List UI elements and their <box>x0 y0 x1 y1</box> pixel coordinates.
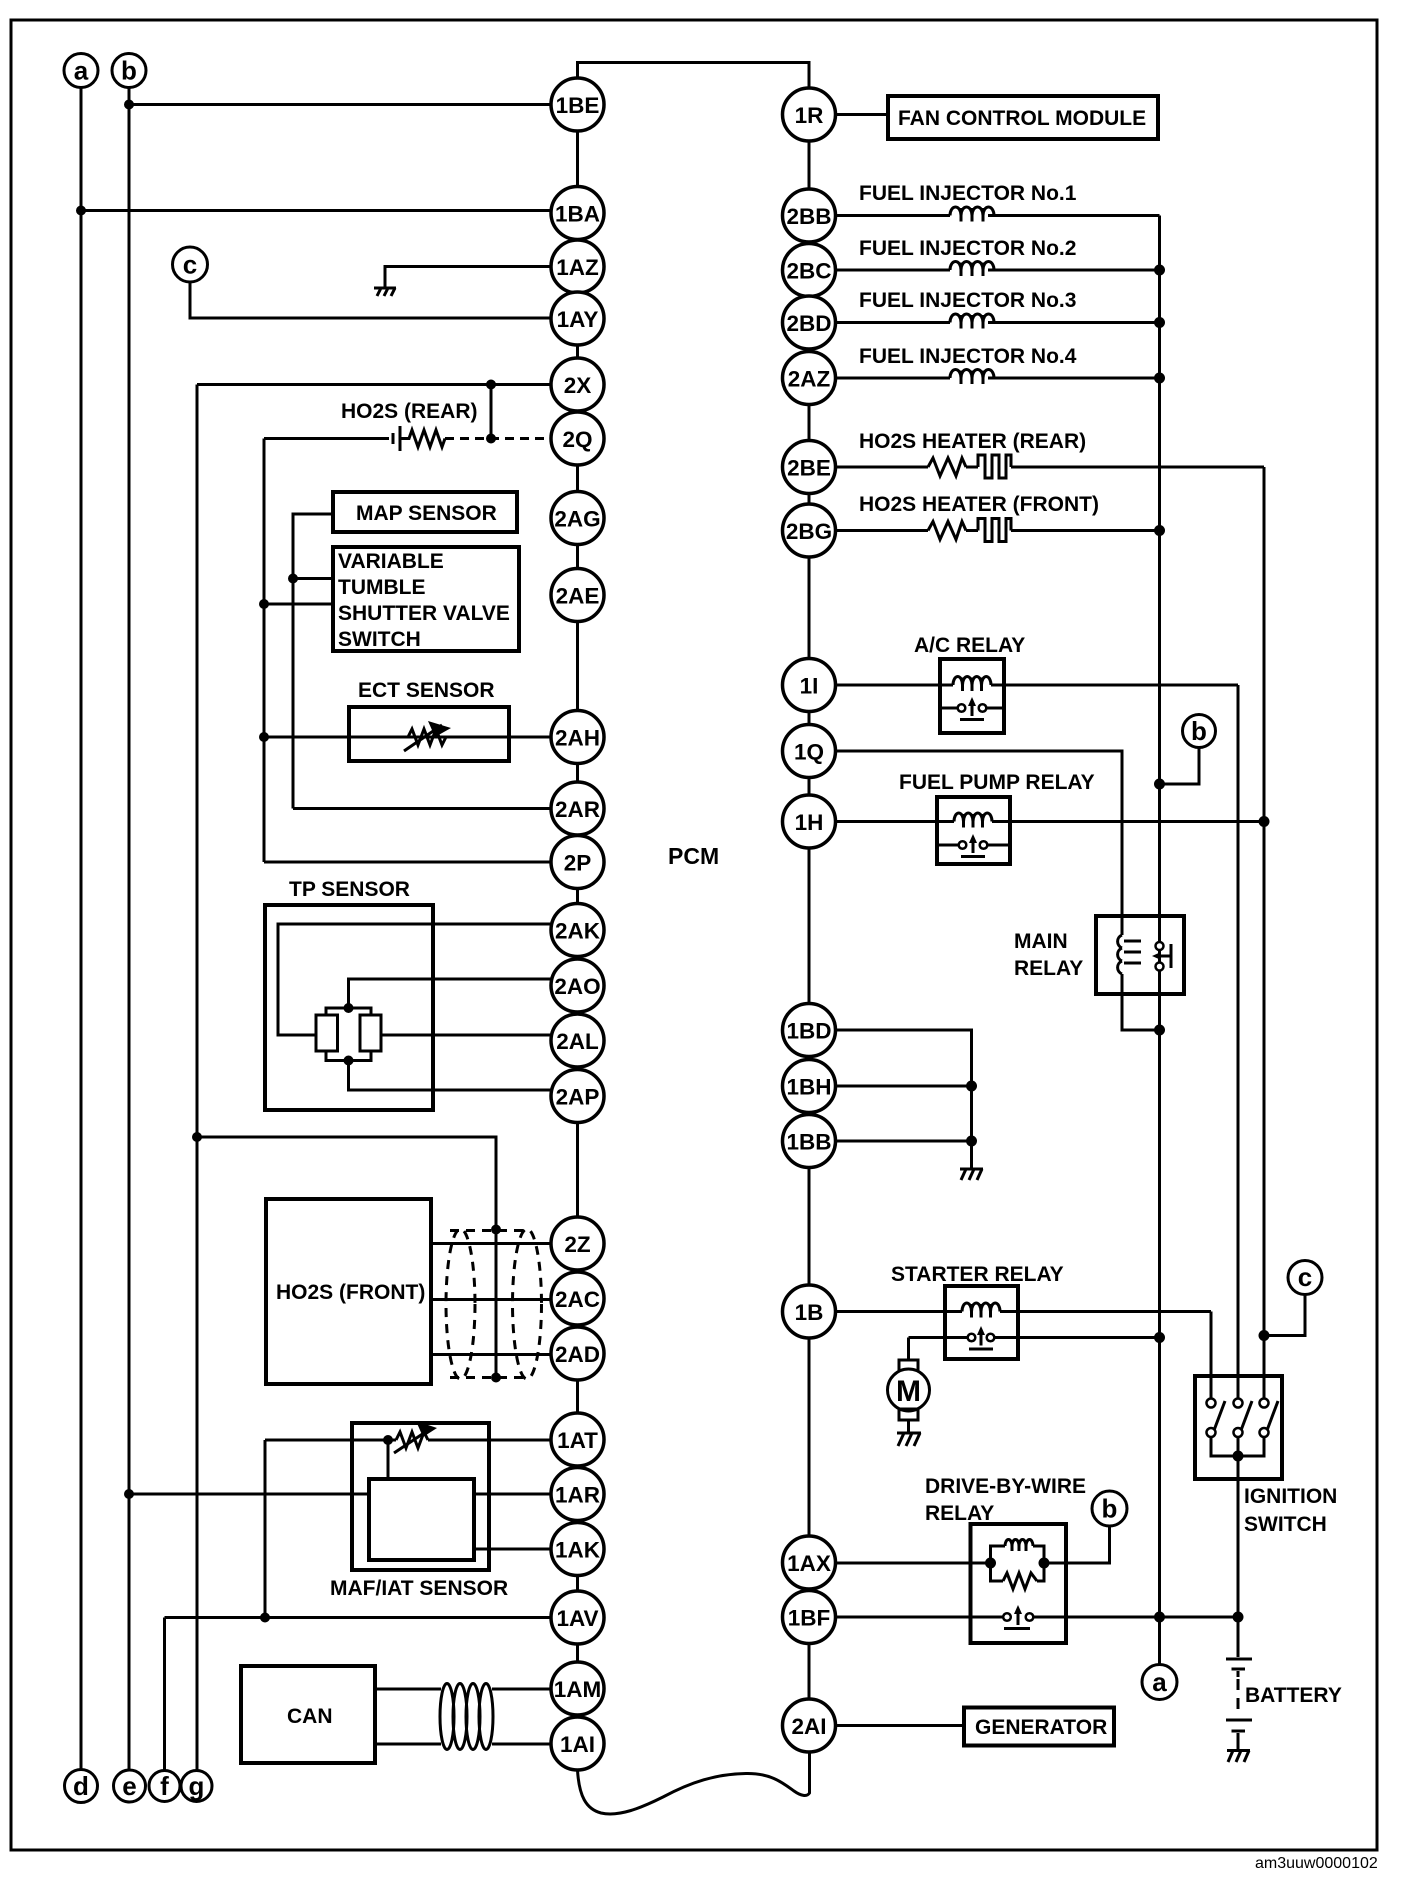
connector a bottom <box>1142 1665 1177 1700</box>
pin 1AT <box>551 1413 604 1466</box>
pin 2AI <box>783 1699 836 1752</box>
svg-text:FUEL INJECTOR No.2: FUEL INJECTOR No.2 <box>859 237 1076 260</box>
pin 1AR <box>551 1468 604 1521</box>
ECT thermistor symbol <box>408 729 446 745</box>
svg-text:1AK: 1AK <box>555 1538 601 1563</box>
wire 2BG heater front <box>836 529 929 532</box>
svg-text:1AY: 1AY <box>557 307 599 332</box>
svg-text:e: e <box>122 1771 136 1801</box>
ECT SENSOR box <box>349 707 509 761</box>
svg-text:b: b <box>121 56 137 86</box>
node dot b-1AR <box>124 1489 134 1499</box>
svg-text:2AP: 2AP <box>556 1085 600 1110</box>
svg-text:ECT SENSOR: ECT SENSOR <box>358 679 495 702</box>
wire 1AR <box>129 1493 369 1496</box>
HO2S (FRONT) box <box>266 1199 431 1384</box>
svg-text:MAIN: MAIN <box>1014 930 1068 953</box>
svg-text:2AC: 2AC <box>555 1287 600 1312</box>
shield dashed ellipse right <box>513 1229 542 1379</box>
node dot VT1 <box>288 574 298 584</box>
svg-text:1B: 1B <box>795 1300 824 1325</box>
pin 2BC <box>783 244 836 297</box>
LEFT-AREA-WIRES <box>76 88 810 1814</box>
MAF/IAT outer box <box>352 1423 489 1570</box>
pin 1AI <box>551 1717 604 1770</box>
pin 1AZ <box>551 240 604 293</box>
wire 1BF <box>836 1616 1004 1619</box>
wire c to x1264 <box>1264 1295 1305 1336</box>
svg-text:1AT: 1AT <box>557 1428 598 1453</box>
svg-text:1BF: 1BF <box>788 1606 831 1631</box>
node dot b-1BE <box>124 100 134 110</box>
wire 2BB injector <box>836 214 951 217</box>
pin 2AD <box>551 1327 604 1380</box>
pin 2BE <box>783 441 836 494</box>
DBW resistor branch <box>991 1563 1004 1581</box>
pin 1BE <box>551 78 604 131</box>
wire b to bus <box>1160 748 1200 785</box>
ground 1BB <box>960 1169 983 1180</box>
svg-text:1BD: 1BD <box>786 1019 831 1044</box>
svg-text:2AK: 2AK <box>555 919 601 944</box>
svg-text:2Q: 2Q <box>562 427 592 452</box>
svg-text:FUEL PUMP RELAY: FUEL PUMP RELAY <box>899 771 1095 794</box>
pin 2AR <box>551 782 604 835</box>
shield dashed ellipse left <box>446 1229 475 1379</box>
svg-text:d: d <box>73 1771 89 1801</box>
svg-text:M: M <box>896 1375 921 1408</box>
svg-text:1R: 1R <box>795 103 824 128</box>
svg-text:GENERATOR: GENERATOR <box>975 1716 1107 1739</box>
wire 2BC injector <box>836 269 951 272</box>
svg-text:TUMBLE: TUMBLE <box>338 576 426 599</box>
coil injector2 <box>950 262 994 277</box>
svg-text:2AR: 2AR <box>555 797 600 822</box>
coil injector4 <box>950 370 994 385</box>
node dot ignition-common <box>1233 1451 1244 1462</box>
wire main coil bottom <box>1122 974 1160 1030</box>
svg-text:b: b <box>1102 1494 1118 1524</box>
MAIN relay box <box>1096 916 1184 994</box>
svg-text:HO2S HEATER (FRONT): HO2S HEATER (FRONT) <box>859 493 1099 516</box>
svg-text:g: g <box>189 1771 205 1801</box>
node dot 1BB <box>966 1136 977 1147</box>
pin 1B <box>783 1285 836 1338</box>
pin 2AP <box>551 1070 604 1123</box>
coil injector1 <box>950 207 994 222</box>
svg-text:1H: 1H <box>795 810 824 835</box>
wire f drop <box>163 1618 166 1772</box>
HO2S (REAR) resistor <box>400 430 445 447</box>
node dot g branch <box>192 1132 202 1142</box>
RIGHT-AREA-WIRES <box>578 63 1323 1763</box>
node dot bus-2BG <box>1154 525 1165 536</box>
battery <box>1237 1617 1240 1657</box>
wire twist to 1AI <box>492 1743 551 1746</box>
pin 2X <box>551 358 604 411</box>
svg-text:BATTERY: BATTERY <box>1245 1684 1342 1707</box>
ignition poles <box>1207 1399 1279 1438</box>
pin 1H <box>783 795 836 848</box>
pin 1BF <box>783 1591 836 1644</box>
wire b vertical <box>128 88 131 1770</box>
svg-text:A/C RELAY: A/C RELAY <box>914 634 1025 657</box>
node dot b-bus <box>1154 779 1165 790</box>
wire 2AD <box>431 1353 551 1356</box>
wire 1R to FAN box <box>836 113 889 116</box>
node dot DBW-left <box>985 1558 996 1569</box>
pin 1BD <box>783 1004 836 1057</box>
node dot IAT <box>383 1435 393 1445</box>
wire ECT 2AH <box>264 736 551 739</box>
svg-text:RELAY: RELAY <box>1014 957 1083 980</box>
wire 2AR <box>293 807 551 810</box>
svg-text:FAN CONTROL MODULE: FAN CONTROL MODULE <box>898 107 1146 130</box>
TP resistor right <box>360 1015 381 1051</box>
pin 2AO <box>551 959 604 1012</box>
node dot ECT <box>259 732 269 742</box>
MAF/IAT inner box <box>369 1479 474 1560</box>
node dot bus-2AZ <box>1154 373 1165 384</box>
node dot 1BH <box>966 1081 977 1092</box>
CIRCLES <box>64 54 836 1803</box>
svg-text:2BC: 2BC <box>786 259 831 284</box>
twisted pair loops <box>440 1684 493 1750</box>
DRIVE-BY-WIRE relay box <box>971 1524 1067 1643</box>
svg-text:2AL: 2AL <box>556 1029 599 1054</box>
wire 1AK <box>474 1548 551 1551</box>
svg-text:SWITCH: SWITCH <box>338 628 421 651</box>
svg-text:SWITCH: SWITCH <box>1244 1513 1327 1536</box>
node dot TP top <box>344 1003 354 1013</box>
svg-text:2AZ: 2AZ <box>788 367 831 392</box>
wire 2P <box>264 861 551 864</box>
pin 1R <box>783 88 836 141</box>
IGNITION SWITCH box <box>1195 1376 1282 1479</box>
svg-text:2Z: 2Z <box>564 1232 591 1257</box>
wire 1BH <box>836 1085 972 1088</box>
connector d <box>65 1770 98 1803</box>
shield dashed top link <box>450 1229 528 1232</box>
wire 1BD <box>836 1030 972 1169</box>
svg-text:1Q: 1Q <box>794 740 824 765</box>
svg-text:a: a <box>1152 1667 1167 1697</box>
wire a vertical <box>80 88 83 1770</box>
pin 1Q <box>783 725 836 778</box>
connector a top <box>64 54 98 88</box>
svg-text:a: a <box>74 56 89 86</box>
svg-text:FUEL INJECTOR No.4: FUEL INJECTOR No.4 <box>859 345 1077 368</box>
starter coil <box>962 1303 1000 1318</box>
node dot TP bottom <box>344 1056 354 1066</box>
wire 2AO <box>349 979 552 1008</box>
svg-text:HO2S (FRONT): HO2S (FRONT) <box>276 1281 425 1304</box>
pin 1AX <box>783 1536 836 1589</box>
svg-text:SHUTTER VALVE: SHUTTER VALVE <box>338 602 510 625</box>
svg-text:CAN: CAN <box>287 1705 333 1728</box>
wire 1H <box>836 820 955 823</box>
wire 2BE heater rear <box>836 466 929 469</box>
svg-text:f: f <box>160 1771 169 1801</box>
wire 2AC <box>431 1298 551 1301</box>
wire bridge 1BE-1R <box>578 63 810 89</box>
wire 1BA <box>81 209 551 212</box>
wire MAP to vertical <box>293 514 333 809</box>
A/C relay box <box>940 659 1004 733</box>
wire VT line2 <box>264 603 333 606</box>
connector g <box>181 1771 212 1802</box>
wire 1AX <box>836 1562 991 1565</box>
connector f <box>149 1771 180 1802</box>
svg-text:c: c <box>1298 1262 1312 1292</box>
connector b bottom <box>1092 1491 1127 1526</box>
wire 1Q <box>836 751 1123 935</box>
DBW coil branch <box>991 1546 1006 1563</box>
coil injector3 <box>950 314 994 329</box>
pin 2AG <box>551 492 604 545</box>
shield dashed bottom link <box>450 1376 528 1379</box>
wire DBW to b <box>1044 1526 1110 1563</box>
pin 2AH <box>551 711 604 764</box>
TP resistor left <box>316 1015 338 1051</box>
pin 2AK <box>551 904 604 957</box>
node dot main-coil-bus <box>1154 1025 1165 1036</box>
svg-text:2AD: 2AD <box>555 1342 600 1367</box>
svg-text:STARTER RELAY: STARTER RELAY <box>891 1263 1064 1286</box>
svg-text:1BH: 1BH <box>786 1075 831 1100</box>
node dot 1H-x1264 <box>1259 816 1270 827</box>
svg-text:MAF/IAT SENSOR: MAF/IAT SENSOR <box>330 1577 508 1600</box>
wire vertical x264 2Q to 2P <box>263 439 266 863</box>
wire 2AZ injector <box>836 377 951 380</box>
svg-text:1AZ: 1AZ <box>556 255 599 280</box>
svg-text:1AI: 1AI <box>560 1732 595 1757</box>
svg-text:RELAY: RELAY <box>925 1502 994 1525</box>
wire 2BD injector <box>836 321 951 324</box>
svg-text:FUEL INJECTOR No.3: FUEL INJECTOR No.3 <box>859 289 1076 312</box>
svg-text:1BE: 1BE <box>556 93 600 118</box>
ground battery <box>1227 1751 1250 1763</box>
svg-text:2AH: 2AH <box>555 726 600 751</box>
STARTER relay box <box>945 1286 1018 1359</box>
FAN CONTROL MODULE box <box>888 96 1158 139</box>
node dot VT2 <box>259 599 269 609</box>
node dot bus-2BC <box>1154 265 1165 276</box>
pin 1AM <box>551 1662 604 1715</box>
svg-text:PCM: PCM <box>668 843 719 869</box>
wire 1B <box>836 1310 963 1313</box>
node dot starter-contact-bus <box>1154 1332 1165 1343</box>
svg-text:c: c <box>183 250 197 280</box>
svg-text:b: b <box>1191 716 1207 746</box>
pin 2AL <box>551 1014 604 1067</box>
wire twist to 1AM <box>492 1688 551 1691</box>
pin 1BA <box>551 187 604 240</box>
DBW contact <box>1003 1605 1033 1629</box>
svg-text:DRIVE-BY-WIRE: DRIVE-BY-WIRE <box>925 1475 1086 1498</box>
svg-text:2X: 2X <box>564 373 592 398</box>
FP relay contact <box>937 834 1010 857</box>
wire CAN to twist bottom <box>375 1743 441 1746</box>
MAP SENSOR box <box>333 492 517 532</box>
svg-text:2BE: 2BE <box>787 456 831 481</box>
pin 1BB <box>783 1115 836 1168</box>
pin 2AE <box>551 569 604 622</box>
wire g vertical <box>196 385 199 1772</box>
node dot 2Q link <box>486 434 496 444</box>
wire IAT to 1AT <box>428 1439 551 1442</box>
svg-text:HO2S (REAR): HO2S (REAR) <box>341 400 478 423</box>
node dot DBW-right <box>1039 1558 1050 1569</box>
TP top bar <box>326 1008 371 1015</box>
wire 1BB <box>836 1140 972 1143</box>
svg-text:1AV: 1AV <box>556 1606 598 1631</box>
ground motor <box>897 1433 921 1446</box>
svg-text:2BG: 2BG <box>786 519 832 544</box>
A/C relay coil <box>953 677 991 692</box>
wire 1AZ to ground <box>385 267 551 288</box>
wire 2X-2Q link <box>490 385 493 439</box>
pin 2Q <box>551 412 604 465</box>
wire left column spine <box>576 78 579 1770</box>
svg-text:am3uuw0000102: am3uuw0000102 <box>1255 1855 1378 1872</box>
pin 2BD <box>783 296 836 349</box>
wire 1I <box>836 684 954 687</box>
svg-text:2AG: 2AG <box>554 507 600 532</box>
wire x1238 down to ignition <box>1237 685 1240 1399</box>
wire 2AI to GENERATOR <box>836 1724 965 1727</box>
svg-text:1I: 1I <box>800 674 819 699</box>
svg-text:MAP SENSOR: MAP SENSOR <box>356 502 497 525</box>
node dot shield bottom <box>491 1373 501 1383</box>
pin 2BB <box>783 189 836 242</box>
svg-text:FUEL INJECTOR No.1: FUEL INJECTOR No.1 <box>859 182 1077 205</box>
wire 1AV <box>165 1616 552 1619</box>
svg-text:2AI: 2AI <box>791 1714 826 1739</box>
node dot 1AV <box>260 1613 270 1623</box>
starter motor <box>907 1338 910 1361</box>
node dot 2X link <box>486 380 496 390</box>
connector b mid <box>1183 715 1216 748</box>
TP SENSOR box <box>265 905 433 1110</box>
svg-text:1BB: 1BB <box>786 1130 831 1155</box>
FUEL PUMP relay box <box>937 797 1010 864</box>
svg-text:2BB: 2BB <box>786 204 831 229</box>
connector c left <box>173 247 208 282</box>
pin 2BG <box>783 504 836 557</box>
svg-text:VARIABLE: VARIABLE <box>338 550 444 573</box>
VARIABLE TUMBLE SHUTTER VALVE SWITCH box <box>333 547 519 651</box>
pin 1AK <box>551 1523 604 1576</box>
svg-text:1AM: 1AM <box>554 1677 602 1702</box>
svg-text:1AX: 1AX <box>787 1551 831 1576</box>
wire squiggle 1AI to 2AI <box>578 1753 810 1814</box>
wire 2AL <box>381 1034 551 1037</box>
wire 2Z <box>431 1242 551 1245</box>
wire starter coil to ignition <box>1210 1312 1213 1400</box>
wire right column spine <box>808 88 811 1752</box>
node dot 1BF-battery <box>1233 1612 1244 1623</box>
wire VT line1 <box>293 577 333 580</box>
wire 2Q dashed <box>445 437 551 440</box>
wire IAT drop <box>387 1440 390 1479</box>
node dot bus-2BD <box>1154 317 1165 328</box>
svg-text:1BA: 1BA <box>555 202 600 227</box>
starter contact <box>909 1326 1160 1349</box>
wire CAN to twist top <box>375 1688 441 1691</box>
GENERATOR box <box>964 1708 1114 1746</box>
svg-text:2AE: 2AE <box>556 584 600 609</box>
wire 2AK <box>278 924 551 1035</box>
TP bottom bar <box>326 1051 371 1061</box>
pin 2AZ <box>783 352 836 405</box>
svg-text:1AR: 1AR <box>555 1483 600 1508</box>
wire x1264 vertical <box>1263 467 1266 1399</box>
wire bus right down <box>1158 216 1161 1666</box>
IAT thermistor <box>396 1432 428 1448</box>
pin 1BH <box>783 1060 836 1113</box>
FP relay coil <box>954 813 992 828</box>
svg-text:IGNITION: IGNITION <box>1244 1485 1337 1508</box>
svg-text:2AO: 2AO <box>554 974 600 999</box>
connector e <box>114 1770 146 1802</box>
MAIN relay contact <box>1152 942 1171 971</box>
svg-text:TP SENSOR: TP SENSOR <box>289 878 410 901</box>
pin 2P <box>551 836 604 889</box>
A/C relay contact <box>940 697 1004 720</box>
node dot 1BF-bus <box>1154 1612 1165 1623</box>
wire 1BE <box>129 103 551 106</box>
pin 2AC <box>551 1272 604 1325</box>
MAIN relay coil vertical <box>1118 935 1141 974</box>
HO2S (REAR) sensor cell symbol <box>392 433 395 444</box>
svg-text:HO2S HEATER (REAR): HO2S HEATER (REAR) <box>859 430 1086 453</box>
wire c to 1AY <box>190 282 551 318</box>
node dot a-1BA <box>76 206 86 216</box>
pin 1I <box>783 659 836 712</box>
node dot c-x1264 <box>1259 1330 1270 1341</box>
pin 1AY <box>551 292 604 345</box>
wire 2X <box>197 383 551 386</box>
connector c right <box>1288 1261 1322 1295</box>
wire shield branch from g <box>197 1137 496 1378</box>
connector b top <box>112 54 146 88</box>
wire 2Q left solid <box>264 437 389 440</box>
wire x265 down to 1AV <box>264 1440 267 1618</box>
wire 2AP <box>349 1061 552 1091</box>
svg-text:2P: 2P <box>564 851 592 876</box>
pin 1AV <box>551 1591 604 1644</box>
ground 1AZ <box>374 288 396 296</box>
svg-text:2BD: 2BD <box>786 311 831 336</box>
CAN box <box>241 1666 375 1763</box>
pin 2Z <box>551 1217 604 1270</box>
wire 1AT row <box>265 1439 396 1442</box>
node dot shield top <box>491 1225 501 1235</box>
